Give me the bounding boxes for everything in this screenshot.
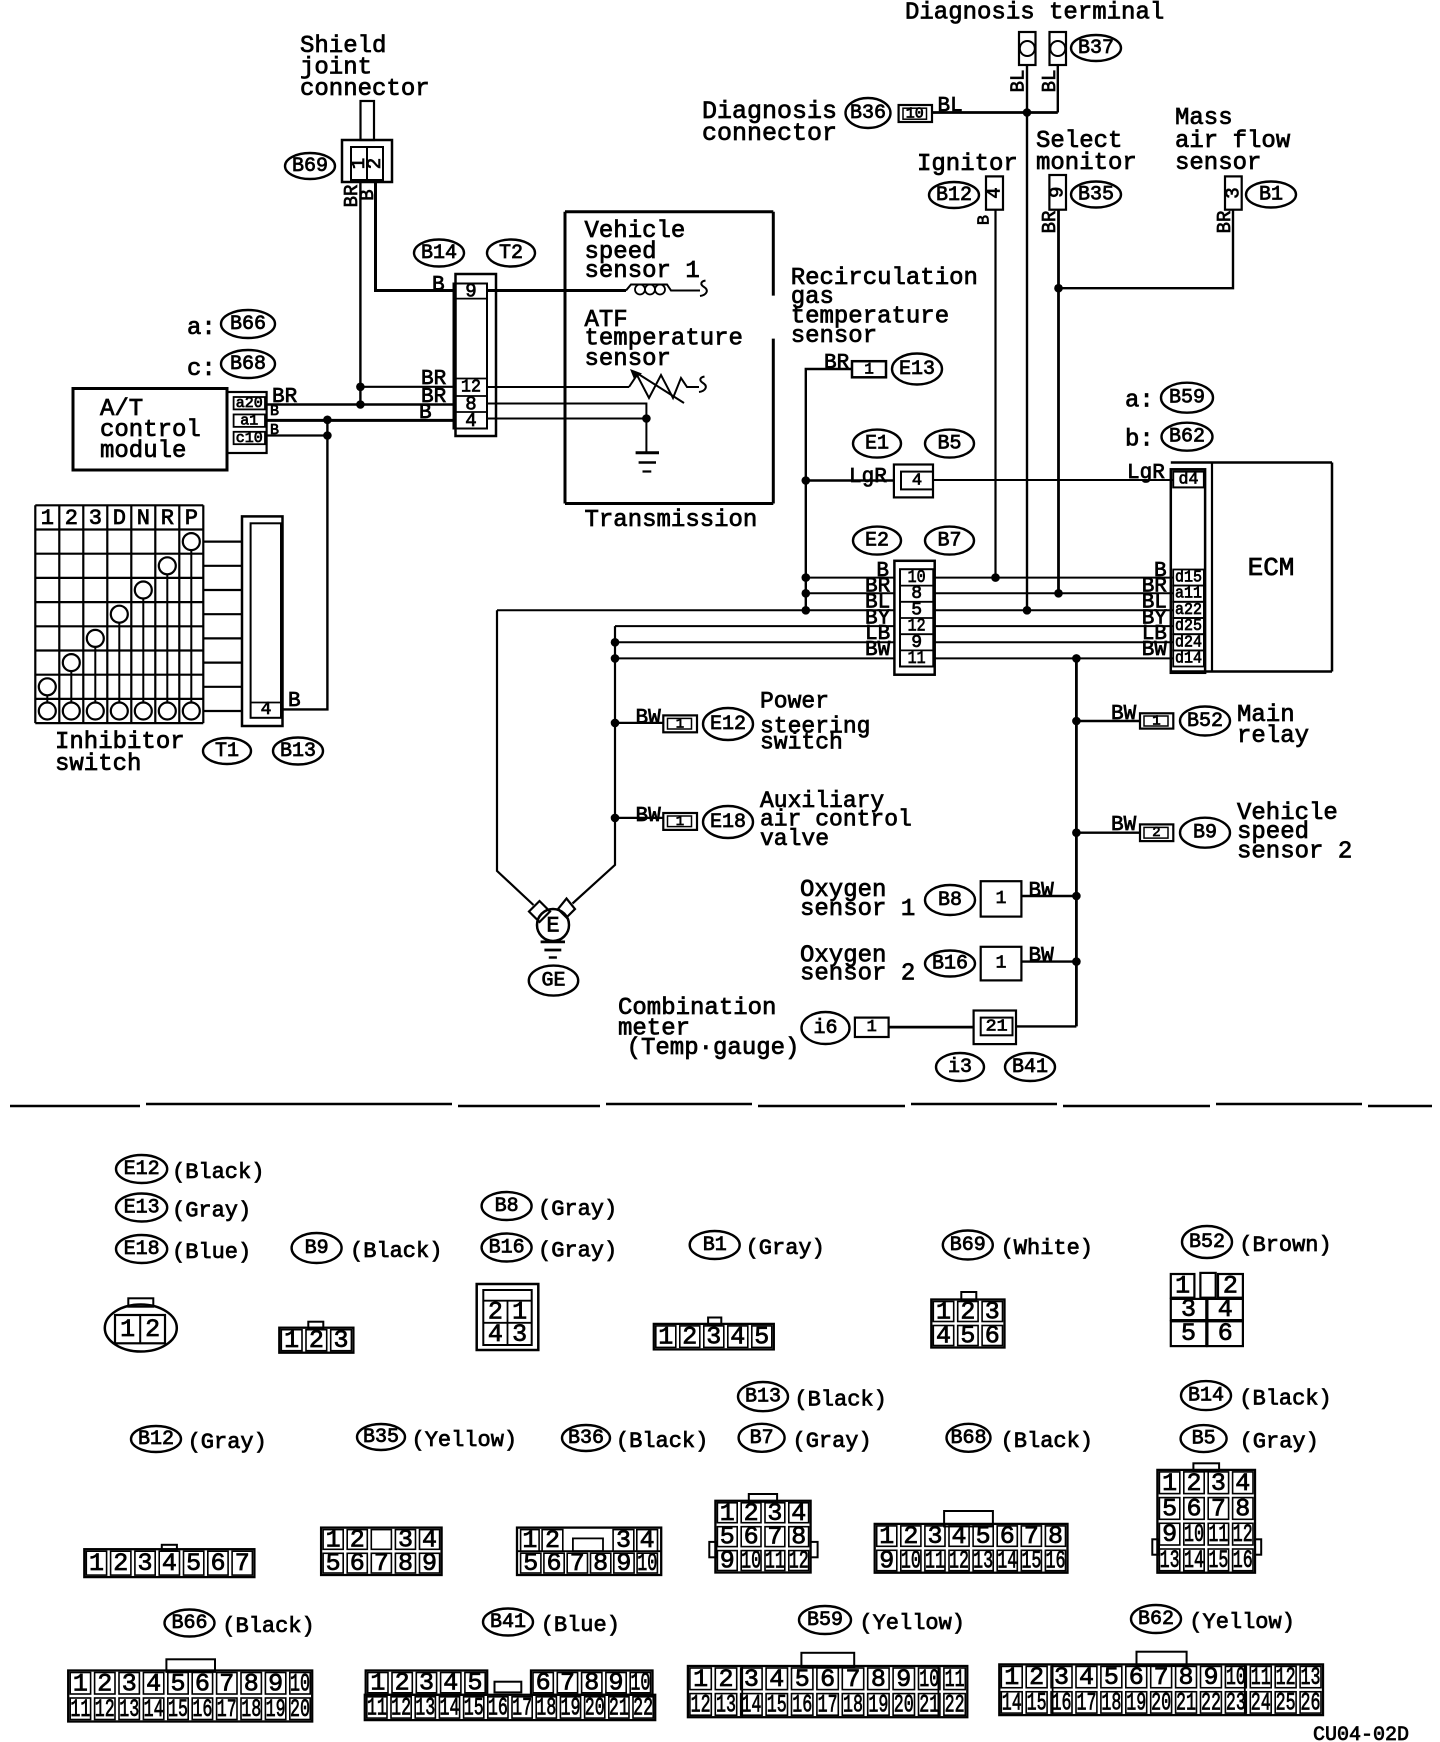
svg-text:Power: Power: [760, 689, 829, 715]
svg-text:B41: B41: [490, 1611, 526, 1634]
svg-text:B13: B13: [280, 740, 316, 763]
svg-text:switch: switch: [55, 751, 141, 778]
svg-text:B62: B62: [1138, 1608, 1174, 1631]
svg-text:16: 16: [488, 1693, 508, 1722]
svg-text:8: 8: [398, 1549, 413, 1578]
svg-text:(Yellow): (Yellow): [859, 1611, 965, 1636]
svg-text:3: 3: [138, 1549, 153, 1578]
svg-text:B52: B52: [1187, 710, 1223, 733]
svg-text:1: 1: [1152, 714, 1160, 730]
svg-text:1: 1: [867, 1018, 877, 1037]
svg-text:B5: B5: [1192, 1428, 1216, 1451]
svg-text:19: 19: [1126, 1688, 1146, 1717]
svg-text:B59: B59: [807, 1609, 843, 1632]
svg-text:sensor 1: sensor 1: [585, 258, 700, 285]
svg-text:11: 11: [1208, 1520, 1228, 1549]
svg-text:6: 6: [210, 1549, 225, 1578]
svg-text:13: 13: [119, 1695, 139, 1724]
svg-text:15: 15: [464, 1693, 484, 1722]
svg-text:2: 2: [682, 1323, 697, 1352]
svg-text:18: 18: [536, 1693, 556, 1722]
svg-text:B35: B35: [363, 1426, 399, 1449]
svg-text:16: 16: [1045, 1547, 1065, 1576]
svg-text:E: E: [546, 914, 559, 939]
svg-text:4: 4: [261, 700, 272, 720]
svg-text:(Yellow): (Yellow): [412, 1428, 518, 1453]
svg-text:P: P: [185, 506, 198, 531]
svg-text:14: 14: [741, 1690, 761, 1719]
svg-text:B7: B7: [750, 1427, 774, 1450]
svg-text:15: 15: [767, 1690, 787, 1719]
svg-text:1: 1: [676, 717, 684, 733]
svg-text:7: 7: [235, 1549, 250, 1578]
svg-text:12: 12: [789, 1547, 809, 1576]
svg-text:14: 14: [440, 1693, 460, 1722]
svg-text:B12: B12: [138, 1428, 174, 1451]
svg-text:b:: b:: [1125, 427, 1154, 454]
svg-text:12: 12: [95, 1695, 115, 1724]
svg-text:B16: B16: [489, 1237, 525, 1260]
svg-text:BR: BR: [824, 352, 850, 375]
svg-text:1: 1: [996, 889, 1007, 909]
svg-text:(Gray): (Gray): [538, 1239, 617, 1264]
svg-text:9: 9: [879, 1547, 894, 1576]
svg-text:sensor 1: sensor 1: [800, 896, 915, 923]
svg-text:22: 22: [633, 1693, 653, 1722]
svg-text:13: 13: [415, 1693, 435, 1722]
svg-text:16: 16: [792, 1690, 812, 1719]
svg-text:7: 7: [374, 1549, 389, 1578]
svg-text:21: 21: [609, 1693, 629, 1722]
svg-text:16: 16: [1052, 1688, 1072, 1717]
svg-text:N: N: [137, 506, 150, 531]
svg-text:B62: B62: [1169, 426, 1205, 449]
svg-text:13: 13: [1160, 1546, 1180, 1575]
svg-text:4: 4: [162, 1549, 177, 1578]
svg-text:5: 5: [326, 1549, 341, 1578]
svg-text:B: B: [976, 215, 995, 225]
svg-text:14: 14: [1002, 1688, 1022, 1717]
svg-text:4: 4: [730, 1323, 745, 1352]
svg-text:B7: B7: [937, 530, 961, 553]
svg-text:R: R: [161, 506, 174, 531]
svg-text:3: 3: [512, 1320, 527, 1349]
svg-text:7: 7: [1211, 1494, 1226, 1523]
svg-text:BW: BW: [636, 707, 662, 730]
svg-text:valve: valve: [760, 826, 829, 852]
svg-text:(Brown): (Brown): [1239, 1233, 1331, 1258]
svg-text:15: 15: [1027, 1688, 1047, 1717]
svg-text:20: 20: [585, 1693, 605, 1722]
svg-text:4: 4: [465, 410, 476, 432]
svg-text:E18: E18: [124, 1238, 160, 1261]
svg-text:B1: B1: [1259, 184, 1283, 207]
svg-text:22: 22: [1201, 1688, 1221, 1717]
svg-text:a20: a20: [236, 395, 263, 412]
svg-text:T1: T1: [215, 740, 239, 763]
svg-text:10: 10: [1184, 1520, 1204, 1549]
svg-text:3: 3: [1222, 187, 1244, 198]
svg-text:14: 14: [144, 1695, 164, 1724]
svg-text:4: 4: [1235, 1469, 1250, 1498]
svg-text:1: 1: [676, 814, 684, 830]
svg-text:(Gray): (Gray): [746, 1236, 825, 1261]
svg-text:9: 9: [465, 281, 476, 303]
svg-text:BW: BW: [1111, 703, 1137, 726]
svg-text:B41: B41: [1012, 1056, 1048, 1079]
svg-text:2: 2: [1186, 1469, 1201, 1498]
svg-text:11: 11: [925, 1547, 945, 1576]
svg-text:12: 12: [1233, 1520, 1253, 1549]
svg-text:LgR: LgR: [1127, 462, 1165, 485]
svg-text:15: 15: [168, 1695, 188, 1724]
svg-text:B1: B1: [703, 1234, 727, 1257]
svg-text:E12: E12: [710, 713, 746, 736]
svg-text:E18: E18: [710, 811, 746, 834]
svg-text:E13: E13: [899, 358, 935, 381]
svg-text:18: 18: [241, 1695, 261, 1724]
svg-text:B68: B68: [230, 353, 266, 376]
svg-text:B5: B5: [937, 433, 961, 456]
svg-text:sensor 2: sensor 2: [1237, 839, 1352, 866]
svg-text:9: 9: [720, 1547, 735, 1576]
svg-text:(Black): (Black): [1239, 1387, 1331, 1412]
svg-text:a:: a:: [187, 315, 216, 342]
svg-text:16: 16: [1233, 1546, 1253, 1575]
svg-text:d4: d4: [1179, 471, 1199, 490]
svg-text:16: 16: [192, 1695, 212, 1724]
svg-text:4: 4: [984, 187, 1006, 198]
svg-text:B59: B59: [1169, 387, 1205, 410]
svg-text:(White): (White): [1001, 1236, 1093, 1261]
svg-text:20: 20: [1151, 1688, 1171, 1717]
svg-text:Transmission: Transmission: [585, 507, 758, 534]
svg-text:10: 10: [741, 1547, 761, 1576]
svg-text:15: 15: [1208, 1546, 1228, 1575]
svg-text:5: 5: [1162, 1494, 1177, 1523]
svg-text:GE: GE: [541, 970, 565, 993]
svg-text:12: 12: [691, 1690, 711, 1719]
svg-text:25: 25: [1276, 1688, 1296, 1717]
svg-text:14: 14: [997, 1547, 1017, 1576]
svg-text:(Black): (Black): [222, 1614, 314, 1639]
svg-text:i3: i3: [948, 1056, 972, 1079]
svg-text:B16: B16: [932, 953, 968, 976]
svg-text:2: 2: [1152, 825, 1160, 841]
svg-text:B8: B8: [495, 1195, 519, 1218]
svg-text:8: 8: [1235, 1494, 1250, 1523]
svg-text:a:: a:: [1125, 388, 1154, 415]
svg-text:(Black): (Black): [794, 1388, 886, 1413]
svg-text:1: 1: [120, 1315, 135, 1344]
svg-text:sensor: sensor: [791, 323, 877, 350]
svg-text:B: B: [432, 274, 445, 297]
svg-text:(Black): (Black): [172, 1160, 264, 1185]
svg-text:3: 3: [334, 1326, 349, 1355]
svg-text:26: 26: [1301, 1688, 1321, 1717]
svg-text:(Gray): (Gray): [188, 1430, 267, 1455]
svg-text:sensor 2: sensor 2: [800, 961, 915, 988]
svg-text:3: 3: [1211, 1469, 1226, 1498]
svg-text:3: 3: [89, 506, 102, 531]
svg-text:9: 9: [1047, 187, 1069, 198]
svg-text:LgR: LgR: [849, 466, 887, 489]
svg-text:(Gray): (Gray): [172, 1199, 251, 1224]
svg-text:5: 5: [960, 1322, 975, 1351]
svg-text:B36: B36: [850, 102, 886, 125]
svg-text:20: 20: [290, 1695, 310, 1724]
svg-text:B14: B14: [421, 242, 457, 265]
svg-text:20: 20: [894, 1690, 914, 1719]
svg-text:2: 2: [113, 1549, 128, 1578]
svg-text:Diagnosis terminal: Diagnosis terminal: [905, 0, 1164, 27]
svg-text:ECM: ECM: [1248, 553, 1295, 583]
svg-text:1: 1: [89, 1549, 104, 1578]
svg-text:sensor: sensor: [585, 346, 671, 373]
svg-text:(Gray): (Gray): [1240, 1430, 1319, 1455]
svg-text:(Gray): (Gray): [793, 1429, 872, 1454]
svg-text:5: 5: [754, 1323, 769, 1352]
svg-text:B9: B9: [1193, 822, 1217, 845]
svg-text:8: 8: [593, 1549, 608, 1578]
svg-text:17: 17: [818, 1690, 838, 1719]
svg-text:17: 17: [1076, 1688, 1096, 1717]
svg-text:1: 1: [996, 954, 1007, 974]
svg-text:15: 15: [1021, 1547, 1041, 1576]
svg-text:11: 11: [70, 1695, 90, 1724]
svg-text:BW: BW: [1029, 945, 1055, 968]
svg-text:B8: B8: [938, 889, 962, 912]
svg-text:19: 19: [868, 1690, 888, 1719]
svg-text:B12: B12: [936, 184, 972, 207]
svg-text:18: 18: [1101, 1688, 1121, 1717]
svg-text:B66: B66: [230, 313, 266, 336]
svg-text:10: 10: [906, 105, 924, 122]
svg-text:B35: B35: [1078, 184, 1114, 207]
svg-text:6: 6: [350, 1549, 365, 1578]
svg-text:1: 1: [1162, 1469, 1177, 1498]
svg-text:11: 11: [908, 649, 926, 669]
svg-text:5: 5: [1181, 1319, 1196, 1348]
svg-text:E13: E13: [124, 1197, 160, 1220]
svg-text:(Blue): (Blue): [172, 1240, 251, 1265]
svg-text:18: 18: [843, 1690, 863, 1719]
svg-text:d14: d14: [1175, 649, 1202, 668]
svg-text:BW: BW: [636, 805, 662, 828]
svg-text:B69: B69: [292, 155, 328, 178]
svg-text:(Black): (Black): [350, 1239, 442, 1264]
svg-text:B13: B13: [745, 1386, 781, 1409]
svg-text:B14: B14: [1188, 1385, 1224, 1408]
svg-text:22: 22: [945, 1690, 965, 1719]
svg-text:11: 11: [765, 1547, 785, 1576]
svg-text:switch: switch: [760, 730, 843, 756]
svg-text:9: 9: [1162, 1520, 1177, 1549]
svg-text:Ignitor: Ignitor: [917, 151, 1018, 178]
svg-text:23: 23: [1226, 1688, 1246, 1717]
svg-text:B69: B69: [950, 1234, 986, 1257]
svg-text:21: 21: [986, 1017, 1008, 1036]
svg-text:(Black): (Black): [616, 1429, 708, 1454]
svg-text:12: 12: [949, 1547, 969, 1576]
svg-text:E1: E1: [865, 433, 889, 456]
svg-text:B36: B36: [568, 1427, 604, 1450]
svg-text:connector: connector: [702, 119, 837, 148]
svg-text:c10: c10: [236, 430, 263, 447]
svg-text:21: 21: [1176, 1688, 1196, 1717]
svg-text:1: 1: [284, 1326, 299, 1355]
svg-text:B9: B9: [305, 1237, 329, 1260]
svg-text:B66: B66: [171, 1612, 207, 1635]
svg-text:D: D: [113, 506, 126, 531]
svg-text:5: 5: [523, 1549, 538, 1578]
svg-text:4: 4: [936, 1322, 951, 1351]
svg-text:B52: B52: [1189, 1231, 1225, 1254]
svg-text:17: 17: [217, 1695, 237, 1724]
svg-text:2: 2: [65, 506, 78, 531]
svg-text:14: 14: [1184, 1546, 1204, 1575]
svg-text:11: 11: [367, 1693, 387, 1722]
svg-text:6: 6: [1218, 1319, 1233, 1348]
svg-text:12: 12: [391, 1693, 411, 1722]
svg-text:1: 1: [41, 506, 54, 531]
svg-text:1: 1: [864, 361, 874, 379]
svg-text:(Yellow): (Yellow): [1189, 1610, 1295, 1635]
svg-text:B37: B37: [1078, 37, 1114, 60]
svg-text:monitor: monitor: [1036, 150, 1137, 177]
svg-text:21: 21: [919, 1690, 939, 1719]
svg-text:9: 9: [422, 1549, 437, 1578]
svg-text:5: 5: [186, 1549, 201, 1578]
svg-text:4: 4: [488, 1320, 503, 1349]
svg-text:(Black): (Black): [1001, 1429, 1093, 1454]
svg-text:B68: B68: [950, 1427, 986, 1450]
svg-text:E2: E2: [865, 530, 889, 553]
svg-text:(Gray): (Gray): [538, 1197, 617, 1222]
svg-text:24: 24: [1251, 1688, 1271, 1717]
svg-text:10: 10: [637, 1549, 657, 1578]
svg-text:2: 2: [145, 1315, 160, 1344]
svg-text:connector: connector: [300, 76, 430, 103]
svg-text:sensor: sensor: [1175, 150, 1261, 177]
svg-text:BL: BL: [938, 95, 963, 118]
svg-text:c:: c:: [187, 356, 216, 383]
svg-text:a1: a1: [240, 413, 258, 430]
svg-text:E12: E12: [124, 1158, 160, 1181]
svg-text:i6: i6: [813, 1017, 837, 1040]
svg-text:6: 6: [546, 1549, 561, 1578]
svg-text:17: 17: [512, 1693, 532, 1722]
svg-text:module: module: [100, 438, 186, 465]
svg-text:10: 10: [901, 1547, 921, 1576]
svg-text:6: 6: [985, 1322, 1000, 1351]
svg-text:13: 13: [716, 1690, 736, 1719]
svg-text:9: 9: [616, 1549, 631, 1578]
svg-text:(Blue): (Blue): [541, 1613, 620, 1638]
svg-text:3: 3: [706, 1323, 721, 1352]
svg-text:2: 2: [364, 158, 386, 169]
svg-text:2: 2: [309, 1326, 324, 1355]
svg-text:T2: T2: [499, 242, 523, 265]
svg-text:1: 1: [658, 1323, 673, 1352]
svg-text:19: 19: [266, 1695, 286, 1724]
svg-text:(Temp·gauge): (Temp·gauge): [627, 1035, 800, 1062]
svg-text:relay: relay: [1237, 723, 1309, 750]
svg-text:BW: BW: [1029, 880, 1055, 903]
svg-text:13: 13: [973, 1547, 993, 1576]
svg-text:4: 4: [912, 472, 922, 491]
svg-text:CU04-02D: CU04-02D: [1313, 1724, 1409, 1742]
svg-text:6: 6: [1186, 1494, 1201, 1523]
svg-text:7: 7: [570, 1549, 585, 1578]
svg-text:19: 19: [561, 1693, 581, 1722]
